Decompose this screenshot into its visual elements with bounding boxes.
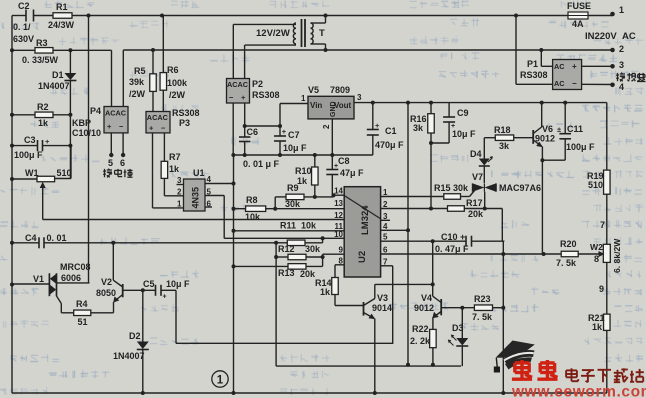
terminal 7 label — [600, 220, 605, 230]
label pin 10 of U2 — [334, 230, 343, 239]
resistor R9 30k — [286, 194, 304, 200]
label R23 — [474, 294, 491, 304]
node: GND/common rail corner — [231, 153, 235, 157]
resistor R4 51 — [74, 310, 91, 316]
wire: V2 collector vertical — [112, 243, 114, 280]
terminal 4 — [610, 82, 624, 92]
label R6 value — [167, 78, 188, 100]
node: pin2 row / V7 bottom — [483, 207, 487, 211]
svg-text:2. 2k: 2. 2k — [410, 336, 431, 346]
wire: U2 pin 7 to output net — [381, 266, 393, 344]
svg-text:+: + — [107, 122, 112, 131]
svg-text:4N35: 4N35 — [191, 187, 201, 209]
label W2 value — [612, 238, 622, 273]
resistor R23 7.5k — [474, 305, 492, 311]
capacitor C8 47uF — [326, 155, 338, 197]
wire: V6 emitter vertical — [541, 147, 543, 255]
label C7 — [288, 130, 300, 140]
svg-text:ACAC: ACAC — [147, 113, 169, 122]
transformer T secondary winding (12V/2W) — [293, 23, 296, 44]
svg-text:R7: R7 — [169, 152, 181, 162]
node: R8 / R9 branch — [273, 207, 277, 211]
svg-text:3: 3 — [357, 93, 362, 102]
svg-text:470μ F: 470μ F — [375, 140, 404, 150]
node: left rail / C3 — [10, 144, 14, 148]
node: R10 top — [313, 153, 317, 157]
svg-text:D4: D4 — [470, 149, 482, 159]
svg-text:9014: 9014 — [372, 303, 392, 313]
wire: R3 row (left rail to P4 left pin) — [12, 50, 112, 106]
svg-text:1: 1 — [301, 94, 306, 103]
svg-text:100k: 100k — [167, 78, 188, 88]
svg-text:10μ F: 10μ F — [283, 143, 307, 153]
transistor V6 9012 — [533, 127, 542, 144]
svg-text:5: 5 — [383, 233, 388, 242]
label pin 6 of U2 (right) — [383, 245, 388, 254]
capacitor C10 0.47uF — [466, 236, 472, 247]
optocoupler U1 4N35 — [184, 179, 206, 211]
watermark: www.eeworm.com — [511, 384, 646, 398]
svg-text:P1: P1 — [527, 59, 538, 69]
node: R9 / R10 — [313, 195, 317, 199]
wire: right column W2 to R21 — [606, 262, 608, 314]
label pin3 of V5 — [357, 93, 362, 102]
capacitor C9 10uF — [431, 103, 455, 143]
label FUSE — [567, 1, 591, 11]
label R5 value — [129, 77, 146, 99]
capacitor C3 100uF — [38, 137, 51, 151]
label V3 value — [372, 303, 392, 313]
wire: V2 base to C5/D2 node — [123, 289, 156, 291]
label C3 — [24, 135, 36, 145]
svg-text:9012: 9012 — [414, 303, 434, 313]
label D2 — [129, 331, 141, 341]
triac V7 MAC97A6 — [473, 183, 496, 191]
terminal 2 — [610, 44, 624, 54]
node: left rail / C4 — [10, 241, 14, 245]
label pin 1 of U1 — [177, 200, 182, 209]
wire: R14 to V3 base — [335, 295, 364, 306]
node: D2 / bottom rail — [141, 391, 145, 395]
svg-text:6: 6 — [383, 245, 388, 254]
terminal 1 — [610, 5, 624, 16]
label R1 — [56, 2, 68, 12]
label R20 value — [556, 258, 577, 268]
wire: V4 collector vertical — [432, 284, 434, 296]
svg-text:GND: GND — [330, 101, 337, 117]
svg-text:9: 9 — [599, 284, 604, 294]
svg-text:1k: 1k — [38, 118, 49, 128]
svg-text:30k: 30k — [285, 199, 301, 209]
svg-text:C4: C4 — [25, 233, 37, 243]
svg-text:U1: U1 — [193, 168, 205, 178]
label 7809 — [330, 85, 350, 95]
terminal 9 label — [599, 284, 604, 294]
svg-text:3: 3 — [383, 212, 388, 221]
svg-text:/2W: /2W — [129, 89, 146, 99]
node: R16/C9 junction — [429, 141, 433, 145]
svg-text:R18: R18 — [494, 125, 511, 135]
label R9 value — [285, 199, 301, 209]
resistor R18 3k — [495, 135, 513, 141]
node: wire2 / R5 top — [151, 48, 155, 52]
label R6 — [167, 65, 179, 75]
module P4 KBP C10/10 bridge — [104, 107, 128, 133]
svg-text:2: 2 — [322, 124, 331, 129]
wire: P2 plus down to C6/C7 top wire — [244, 103, 246, 126]
wire: C5 right to comparator-output net — [161, 290, 393, 343]
node: 9V / V6 collector — [540, 101, 544, 105]
node: U1 pin4 / common rail — [232, 182, 236, 186]
wire: R6 leads — [162, 16, 164, 112]
svg-text:R9: R9 — [287, 183, 299, 193]
node: pin10 row / R12 right — [321, 236, 325, 240]
svg-text:V6: V6 — [542, 124, 553, 134]
svg-text:FUSE: FUSE — [567, 1, 591, 11]
wire: V6 emitter diag — [533, 140, 543, 147]
resistor R1 24/3W on top rail — [53, 13, 72, 19]
svg-text:0. 1/: 0. 1/ — [13, 22, 31, 32]
capacitor C1 470uF — [367, 103, 380, 141]
svg-text:KBP: KBP — [72, 118, 91, 128]
svg-text:510: 510 — [588, 180, 603, 190]
label P3 — [179, 118, 190, 128]
wire: P3 right output to R7 — [163, 133, 165, 161]
wire: P4 output pins to terminals 5,6 — [111, 133, 123, 155]
potentiometer W2 6.8k/2W — [599, 244, 611, 262]
svg-text:7. 5k: 7. 5k — [556, 258, 577, 268]
node: common rail / bottom rail — [232, 391, 236, 395]
svg-text:ACAC: ACAC — [105, 109, 127, 118]
label C2 — [18, 1, 30, 11]
node: C6 bottom — [243, 153, 247, 157]
label pin1 of V5 — [301, 94, 306, 103]
label MRC08 — [60, 262, 91, 272]
svg-text:1: 1 — [217, 375, 224, 387]
wire: R16-C9 vertical to pin2 row — [430, 143, 432, 209]
label V2 value — [96, 288, 116, 298]
resistor R19 510 — [604, 170, 611, 194]
wire: P3 left output to U1 pin 1 — [153, 133, 184, 208]
svg-text:C8: C8 — [338, 156, 350, 166]
wire: phase vertical from top rail to V1 — [88, 16, 90, 283]
resistor R21 1k — [604, 314, 611, 330]
label pin 5 of U2 (right) — [383, 233, 388, 242]
svg-text:C7: C7 — [288, 130, 300, 140]
label C8 — [338, 156, 350, 166]
wire: D4 vertical — [483, 138, 485, 183]
node: R12 left / 9V branch — [274, 241, 278, 245]
wire: V4 base row R23 — [441, 307, 503, 309]
svg-text:7: 7 — [600, 220, 605, 230]
label R22 — [412, 324, 429, 334]
watermark: chongchong red characters — [512, 360, 558, 379]
label R16 — [410, 114, 427, 124]
resistor R3 0.33/5W — [35, 48, 53, 54]
label R13 value — [300, 269, 316, 279]
svg-text:1k: 1k — [592, 322, 603, 332]
node: top rail to R6 — [160, 14, 164, 18]
wire: R12 row — [276, 238, 323, 243]
svg-text:3k: 3k — [499, 141, 510, 151]
wire: P1 minus to terminal 4 — [582, 83, 613, 85]
label T — [319, 28, 325, 39]
svg-text:C10 +: C10 + — [441, 232, 465, 242]
label R11 10k — [280, 221, 317, 231]
svg-text:1N4007: 1N4007 — [113, 351, 145, 361]
node: C7 bottom — [278, 153, 282, 157]
label pin 3 of U2 (right) — [383, 212, 388, 221]
resistor R7 1k — [161, 161, 168, 178]
svg-text:V3: V3 — [377, 293, 388, 303]
watermark: graduation cap icon — [494, 341, 535, 373]
svg-text:5: 5 — [207, 188, 212, 197]
label V2 — [101, 277, 112, 287]
label V5 — [308, 85, 319, 95]
node: C7 top / Vin vertical — [278, 124, 282, 128]
label R19 — [587, 171, 604, 181]
node: R8 / common rail — [232, 207, 236, 211]
label P4 — [90, 106, 101, 116]
capacitor C6 0.01uF — [239, 126, 250, 155]
terminal 8 label — [594, 254, 599, 264]
wire: D1 branch vertical — [69, 50, 71, 178]
node: R12b left / 9V branch — [274, 255, 278, 259]
node: R23 / D3 top — [460, 306, 464, 310]
svg-text:C9: C9 — [457, 108, 469, 118]
node: pin6 row / V6 emitter vertical — [542, 252, 546, 256]
node: 9V / C11 — [563, 101, 567, 105]
resistor R13 20k — [288, 264, 306, 270]
label R12 value — [305, 244, 321, 254]
wire: C3 row — [12, 145, 70, 147]
svg-text:20k: 20k — [468, 209, 484, 219]
terminal 6 — [120, 153, 125, 168]
pin 3 stub of U2 — [381, 219, 390, 221]
label C9 — [457, 108, 469, 118]
wire: C6/C7 top wire — [245, 125, 280, 127]
node: top rail to P1 lower AC — [514, 14, 518, 18]
wire: primary top to top rail — [311, 16, 326, 24]
label C9 value — [452, 129, 476, 139]
wire: GND bus to C1 bottom — [372, 141, 374, 155]
wire: U2 pin 13 row (R8) — [234, 208, 345, 210]
node: R2 / D1 vertical — [68, 113, 72, 117]
wire: C4 row — [12, 242, 276, 244]
label R18 — [494, 125, 511, 135]
wire: R13 row — [234, 257, 323, 266]
module P2 RS308 — [227, 79, 250, 104]
svg-text:R13: R13 — [278, 268, 295, 278]
wire: P2 left pin to secondary top — [233, 24, 296, 78]
fuse FUSE 4A — [568, 12, 588, 19]
transistor V4 9012 — [432, 296, 441, 318]
node: pin2 row / R16-C9 vertical — [429, 207, 433, 211]
label 12V/2W — [256, 28, 290, 39]
label V3 — [377, 293, 388, 303]
wire: 220V line 2 (P4 right pin to terminal 2) — [123, 50, 612, 107]
svg-text:6. 8k/2W: 6. 8k/2W — [612, 238, 622, 273]
svg-text:R4: R4 — [76, 299, 88, 309]
svg-text:C5: C5 — [143, 279, 155, 289]
svg-text:12: 12 — [334, 211, 343, 220]
svg-text:7: 7 — [383, 257, 388, 266]
svg-text:R22: R22 — [412, 324, 429, 334]
label R8 — [246, 195, 258, 205]
module P3 RS308 — [146, 112, 170, 133]
op-amp U2 LM324 — [344, 187, 380, 277]
label D1 value — [38, 81, 70, 91]
wire: top rail branch to P1 lower AC — [516, 16, 553, 85]
svg-text:R2: R2 — [37, 102, 49, 112]
svg-text:0. 01 μ F: 0. 01 μ F — [243, 159, 280, 169]
node: V3 emitter / bottom rail — [373, 391, 377, 395]
label IN220V AC — [585, 31, 636, 42]
wire: R17-C10-R23 vertical to bottom rail — [502, 241, 504, 393]
wire: R16 bottom to junction — [430, 133, 432, 143]
node: R11 / common rail — [232, 229, 236, 233]
svg-text:R10: R10 — [295, 166, 312, 176]
svg-text:R5: R5 — [134, 66, 146, 76]
wire: R15 to V7 gate — [461, 191, 475, 197]
label C11 value — [566, 142, 595, 152]
label D2 value — [113, 351, 145, 361]
svg-text:13: 13 — [334, 199, 343, 208]
svg-text:9012: 9012 — [535, 134, 555, 144]
svg-text:8050: 8050 — [96, 288, 116, 298]
label 4A — [572, 19, 584, 29]
svg-text:100μ F: 100μ F — [14, 150, 43, 160]
resistor R2 1k — [35, 112, 53, 118]
node: P2 plus / C6 top — [243, 124, 247, 128]
svg-text:+: + — [45, 137, 50, 146]
wire: R5 leads — [152, 50, 154, 112]
label C1 — [385, 126, 397, 136]
label C7 value — [283, 143, 307, 153]
svg-text:R3: R3 — [36, 38, 48, 48]
label R16 value — [413, 123, 424, 133]
svg-text:AC: AC — [554, 62, 565, 71]
svg-text:6006: 6006 — [61, 273, 81, 283]
capacitor C4 0.01 — [39, 237, 44, 248]
svg-text:Vin: Vin — [310, 101, 322, 110]
wire: GND bus under 7809 — [233, 154, 373, 156]
label R4 — [76, 299, 88, 309]
svg-text:1k: 1k — [169, 164, 180, 174]
label pin 13 of U2 — [334, 199, 343, 208]
svg-text:V1: V1 — [33, 274, 44, 284]
terminal 5 — [108, 153, 114, 168]
node: wire2 / transformer — [324, 48, 328, 52]
resistor R20 7.5k — [561, 251, 578, 257]
label W1 — [25, 168, 39, 178]
svg-text:2: 2 — [177, 188, 182, 197]
svg-text:8: 8 — [339, 256, 344, 265]
svg-text:0. 47μ F: 0. 47μ F — [435, 244, 469, 254]
svg-text:2: 2 — [619, 44, 624, 54]
svg-text:+: + — [241, 93, 246, 102]
wire: wire2 branch to P1 upper AC — [541, 50, 552, 66]
pin 4 of U1 wire to common rail — [205, 175, 234, 184]
watermark: site name — [566, 368, 644, 382]
resistor R17 20k — [448, 206, 465, 212]
wire: 7809 pin2 GND down — [322, 119, 332, 155]
node: 7809 GND — [330, 153, 334, 157]
transformer T primary winding — [311, 23, 314, 44]
wire: V4 emitter to R22 — [432, 317, 434, 329]
resistor R5 39k/2W — [150, 74, 157, 92]
module P1 RS308 — [553, 60, 582, 90]
label C3 value — [14, 150, 43, 160]
diode D4 — [479, 156, 493, 166]
svg-text:51: 51 — [78, 317, 88, 327]
resistor R12b — [288, 254, 306, 260]
label R3 value — [22, 55, 59, 65]
node: left rail / R3 — [10, 48, 14, 52]
wire: R2 row — [12, 114, 70, 116]
node: R23 / R17-C10 vertical — [501, 306, 505, 310]
svg-text:10μ F: 10μ F — [452, 129, 476, 139]
label D1 — [52, 70, 64, 80]
svg-text:R6: R6 — [167, 65, 179, 75]
wire: comparator output net horizontal — [375, 283, 433, 285]
svg-text:R8: R8 — [246, 195, 258, 205]
wire: U2 pin 11 row (R11) — [234, 230, 345, 232]
pin 6 of U1 (stub) — [205, 200, 212, 209]
label pin 2 of U1 — [177, 188, 182, 197]
svg-text:100μ F: 100μ F — [566, 142, 595, 152]
wire: V7 bottom to pin2 row — [484, 192, 486, 209]
transistor V3 9014 — [364, 299, 376, 320]
svg-text:10μ F: 10μ F — [166, 279, 190, 289]
node: C8 / pin14 wire — [332, 193, 336, 197]
svg-text:www.eeworm.com: www.eeworm.com — [511, 384, 646, 398]
label R7 value — [169, 164, 180, 174]
wire: 9V branch vertical x276 — [275, 243, 277, 366]
wire: U2 pin 6 row to W2 wiper — [381, 253, 601, 255]
resistor R14 1k — [332, 278, 339, 295]
wire: R16 top lead — [430, 103, 432, 114]
label R10 — [295, 166, 312, 176]
label C6 — [247, 127, 259, 137]
svg-text:0. 33/5W: 0. 33/5W — [22, 55, 59, 65]
node: R17 vertical / bottom rail — [501, 391, 505, 395]
node: 9V vertical / 9V bottom wire — [406, 363, 410, 367]
svg-text:V2: V2 — [101, 277, 112, 287]
label jie-dian-shu (armature) — [103, 169, 132, 178]
svg-text:6: 6 — [120, 158, 125, 168]
label C4 value — [47, 233, 67, 243]
svg-text:MAC97A6: MAC97A6 — [499, 183, 541, 193]
svg-text:D3: D3 — [452, 323, 464, 333]
label C10 value — [435, 244, 469, 254]
svg-text:R17: R17 — [466, 198, 483, 208]
label pin 14 of U2 — [334, 187, 343, 196]
svg-text:D1: D1 — [52, 70, 64, 80]
label R21 value — [592, 322, 603, 332]
label KBP — [72, 118, 91, 128]
svg-text:5: 5 — [108, 158, 113, 168]
node: R13 / common rail — [232, 264, 236, 268]
wire: U2 pin 1 row to R15 — [381, 196, 444, 198]
wire: R7 to U1 pin 2 — [164, 178, 183, 195]
wire: V3 emitter to bottom rail — [374, 319, 376, 394]
svg-text:LM324: LM324 — [360, 205, 371, 235]
wire: R18 row — [484, 137, 533, 139]
node: pin6 row / R17-C10 vertical — [501, 252, 505, 256]
label R5 — [134, 66, 146, 76]
node: 9V / pin4 vertical — [406, 101, 410, 105]
